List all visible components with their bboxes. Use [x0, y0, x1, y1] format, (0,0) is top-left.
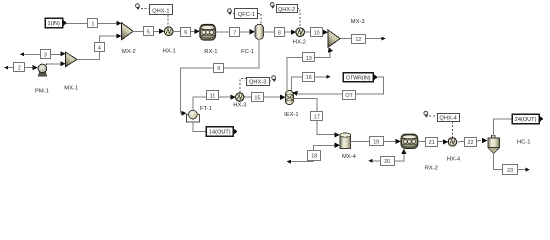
wire dotted QHX-3 to icon	[269, 80, 271, 82]
svg-text:19: 19	[373, 140, 379, 146]
wire dotted QHX-1 to icon	[141, 8, 149, 10]
wire PM-1 outlet to MX-1 bottom	[47, 61, 65, 66]
stream label box 15	[252, 93, 264, 102]
svg-text:QHX-4: QHX-4	[439, 116, 456, 122]
svg-text:5: 5	[147, 30, 150, 36]
svg-text:HX-4: HX-4	[447, 157, 461, 163]
wire dotted icon to QFC-1	[233, 13, 235, 15]
svg-text:7: 7	[233, 30, 236, 36]
svg-text:1(IN): 1(IN)	[47, 21, 60, 27]
energy label box QHX-4	[438, 114, 460, 122]
svg-text:3: 3	[44, 53, 47, 59]
stream label box 23	[503, 165, 518, 175]
svg-text:16: 16	[306, 75, 312, 81]
stream label box 13	[303, 53, 315, 62]
wire dotted QHX-4 to HX-4	[451, 121, 453, 137]
stream label box 6	[181, 28, 191, 37]
stream label box 19	[370, 137, 384, 146]
material source box 1(IN)	[45, 18, 67, 27]
svg-text:23: 23	[507, 168, 513, 174]
stream label box OT	[343, 91, 356, 100]
material source box OTWR(IN)	[343, 73, 377, 82]
wire stream 8 from FC-1 to HX-2	[264, 30, 297, 35]
svg-text:21: 21	[429, 140, 435, 146]
svg-text:24(OUT): 24(OUT)	[515, 117, 537, 123]
pump PM-1	[38, 64, 47, 76]
energy stream icon for QFC-1	[228, 9, 233, 15]
stream label box 12	[352, 35, 366, 44]
svg-text:MX-4: MX-4	[342, 154, 357, 160]
energy stream icon for QHX-3	[272, 76, 277, 82]
svg-text:HX-1: HX-1	[163, 48, 176, 54]
wire stream 4 from MX-1 to MX-2	[77, 33, 122, 59]
reactor RX-2	[401, 134, 418, 148]
stream label box 7	[230, 28, 240, 37]
wire stream 17 from IEX-1 to MX-4	[294, 99, 340, 138]
material sink box 14(OUT)	[206, 127, 237, 136]
svg-text:QHX-1: QHX-1	[152, 8, 169, 14]
wire stream 3 into MX-1 top	[20, 51, 65, 56]
reactor RX-1	[200, 24, 216, 40]
energy label box QHX-1	[150, 5, 173, 15]
stream label box 18	[308, 151, 321, 161]
wire stream 20 into RX-2 bottom	[369, 149, 407, 163]
stream label box 5	[144, 27, 154, 36]
stream label box 9	[214, 64, 224, 73]
svg-text:QHX-3: QHX-3	[249, 80, 266, 86]
hydrocyclone HC-1	[488, 135, 500, 153]
energy label box QFC-1	[235, 9, 258, 19]
wire stream 13 from IEX-1 top to MX-3 bottom	[287, 47, 333, 90]
energy stream icon for QHX-2	[270, 3, 274, 9]
svg-text:18: 18	[311, 154, 317, 160]
heater HX-3	[236, 93, 244, 101]
svg-text:9: 9	[217, 66, 220, 72]
energy label box QHX-3	[247, 78, 270, 86]
svg-text:2: 2	[18, 65, 21, 71]
stream label box 1	[88, 19, 98, 28]
stream label box 10	[311, 28, 323, 37]
svg-text:MX-1: MX-1	[64, 86, 78, 92]
mixer MX-1	[65, 52, 76, 67]
svg-text:HC-1: HC-1	[517, 140, 531, 146]
flash column FC-1	[255, 24, 264, 39]
wire stream 21 from RX-2 to HX-4	[418, 139, 448, 144]
svg-text:10: 10	[314, 31, 320, 37]
stream label box 21	[426, 138, 438, 147]
svg-text:FC-1: FC-1	[241, 49, 254, 55]
svg-text:MX-2: MX-2	[122, 49, 136, 55]
wire stream 19 from MX-4 to RX-2	[351, 139, 401, 144]
wire stream 5 from MX-2 to HX-1	[133, 29, 164, 34]
wire dotted QHX-1 to HX-1	[167, 15, 169, 27]
svg-text:QFC-1: QFC-1	[238, 12, 255, 18]
wire stream 14 from FT-1 bottom to 14(OUT)	[193, 122, 206, 131]
svg-text:RX-1: RX-1	[204, 49, 217, 55]
svg-text:22: 22	[468, 140, 474, 146]
svg-text:6: 6	[184, 30, 187, 36]
heater HX-4	[448, 138, 456, 146]
svg-text:IEX-1: IEX-1	[284, 112, 299, 118]
wire stream 22 from HX-4 to HC-1	[457, 138, 488, 143]
svg-text:HX-3: HX-3	[233, 102, 246, 108]
wire stream 18 into MX-4	[287, 143, 340, 164]
stream label box 3	[41, 50, 51, 59]
ion exchange column IEX-1	[285, 91, 293, 105]
mixer tank MX-4	[340, 133, 351, 149]
energy stream icon for QHX-1	[136, 4, 141, 10]
wire dotted HX-3 to QHX-3	[240, 79, 246, 93]
svg-text:FT-1: FT-1	[200, 106, 212, 112]
wire stream 12 from MX-3 to product arrow	[340, 37, 386, 41]
svg-text:HX-2: HX-2	[293, 40, 306, 46]
svg-text:17: 17	[314, 114, 320, 120]
svg-text:1: 1	[91, 22, 94, 28]
material sink box 24(OUT)	[512, 114, 543, 124]
wire dotted QFC-1 to FC-1	[258, 14, 261, 24]
heater HX-2	[296, 28, 305, 37]
svg-text:15: 15	[254, 96, 260, 102]
wire stream 9 from FC-1 bottom to FT-1	[181, 39, 260, 116]
wire stream 23 from HC-1 bottom to arrow	[494, 154, 530, 172]
svg-text:OT: OT	[345, 93, 353, 99]
svg-text:11: 11	[210, 93, 216, 99]
svg-text:12: 12	[355, 37, 361, 43]
mixer MX-3	[328, 30, 340, 47]
stream label box 2	[14, 63, 25, 72]
wire stream OT from OTWR(IN) to IEX-1	[293, 77, 384, 96]
svg-text:14(OUT): 14(OUT)	[209, 130, 231, 136]
svg-text:PM-1: PM-1	[35, 89, 49, 95]
svg-text:RX-2: RX-2	[425, 165, 438, 171]
flash tank FT-1	[186, 110, 199, 122]
heater HX-1	[164, 27, 173, 36]
wire dotted QHX-2 to HX-2	[297, 8, 300, 27]
energy label box QHX-2	[277, 5, 298, 14]
wire dotted icon to QHX-4	[429, 115, 437, 117]
svg-text:OTWR(IN): OTWR(IN)	[346, 75, 371, 81]
stream label box 8	[275, 28, 285, 37]
wire stream 11/15 from FT-1 top to IEX-1	[193, 95, 286, 110]
wire stream 24 from HC-1 top to 24(OUT)	[494, 119, 512, 135]
svg-text:QHX-2: QHX-2	[278, 7, 295, 13]
stream label box 4	[95, 43, 105, 52]
wire stream 10 from HX-2 to MX-3	[305, 30, 329, 35]
stream label box 22	[465, 138, 477, 147]
svg-text:20: 20	[384, 159, 390, 165]
svg-text:MX-3: MX-3	[351, 19, 365, 25]
mixer MX-2	[122, 23, 134, 40]
svg-text:4: 4	[98, 46, 101, 52]
wire stream 6 from HX-1 to RX-1	[173, 29, 200, 34]
wire stream 7 from RX-1 to FC-1	[216, 29, 255, 34]
wire stream 1 from 1(IN) to MX-2	[67, 21, 122, 26]
energy stream icon for QHX-4	[424, 111, 429, 117]
svg-text:13: 13	[306, 56, 312, 62]
stream label box 20	[381, 157, 395, 166]
svg-text:8: 8	[278, 31, 281, 37]
wire stream 2 into PM-1	[4, 65, 38, 70]
stream label box 16	[303, 73, 315, 82]
stream label box 17	[311, 112, 323, 121]
wire stream 16 from IEX-1 top to vent arrow	[292, 75, 331, 91]
stream label box 11	[207, 91, 219, 100]
